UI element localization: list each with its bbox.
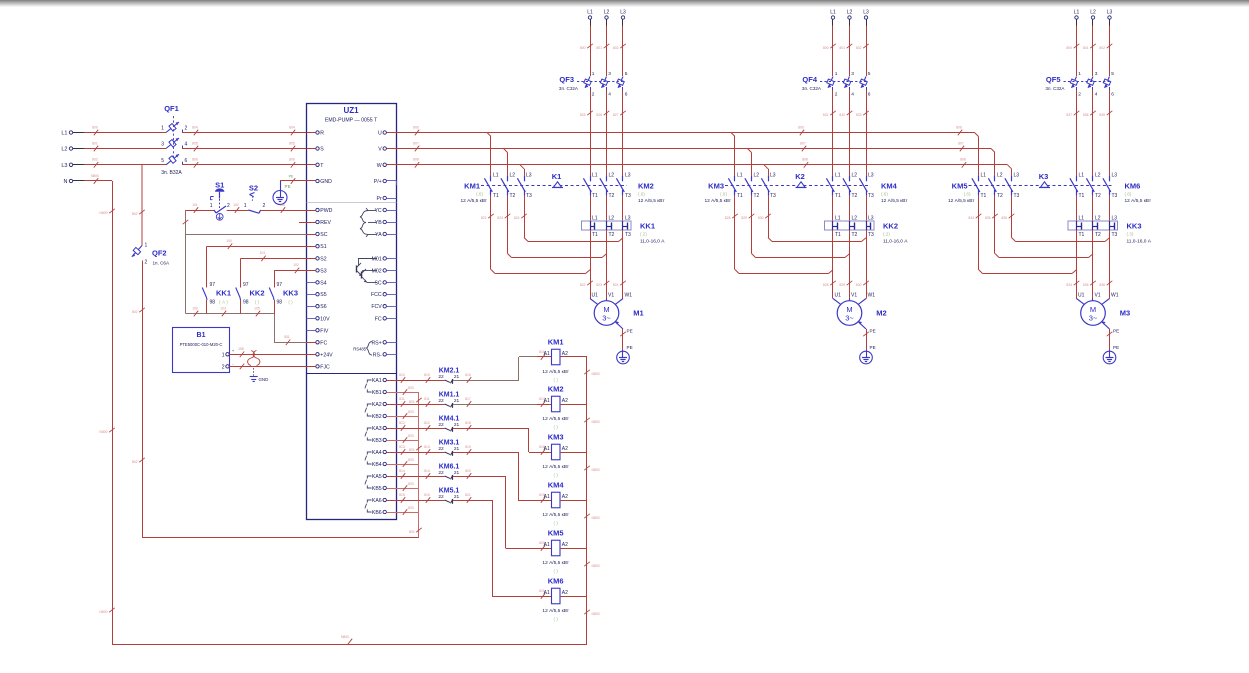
wire L3 tap to QF2 [132,165,145,246]
svg-text:T1: T1 [493,193,499,199]
UZ1 pin GND [307,179,333,185]
svg-text:KB4: KB4 [372,462,382,468]
svg-text:802: 802 [92,158,98,162]
wire L1 down to QF5 [1066,26,1079,77]
svg-text:5: 5 [161,158,164,164]
svg-text:L3: L3 [625,172,631,178]
svg-text:L1: L1 [592,216,598,222]
wire KM6 coil A2 to N bus [560,596,587,598]
wire L3 down to QF5 [1099,26,1112,77]
svg-text:A1: A1 [544,351,550,357]
auxiliary NC contact KM3.1 (21-22) [438,440,459,456]
svg-text:814: 814 [424,469,430,473]
terminal L3 (mains input) [61,163,84,169]
wire KM5 T1 to motor junction [968,196,1076,274]
UZ1 pin V [378,147,396,153]
svg-text:822: 822 [481,216,487,220]
svg-text:21: 21 [454,446,460,452]
svg-text:803: 803 [408,434,414,438]
svg-text:KB1: KB1 [372,390,382,396]
svg-text:L2: L2 [1095,216,1101,222]
junction V bus drop branch 1 [504,149,508,153]
svg-text:819: 819 [465,445,471,449]
wire KM2 T1 to KK1 [590,196,592,221]
svg-text:S3: S3 [320,268,326,274]
UZ1 relay contact KA3/KB3 [365,426,397,444]
svg-text:836: 836 [1001,216,1007,220]
svg-text:6: 6 [185,158,188,164]
wire KM3 pole 1 feed [734,137,736,176]
svg-text:823: 823 [497,216,503,220]
svg-text:829: 829 [839,283,845,287]
cable screen twist symbol [248,351,260,366]
UZ1 pin W [377,163,397,169]
svg-text:PTE5000C-010-M20-C: PTE5000C-010-M20-C [180,342,223,347]
svg-text:U1: U1 [592,293,599,299]
svg-text:K3: K3 [1039,172,1049,181]
svg-text:12 А/5,5 кВт: 12 А/5,5 кВт [542,512,569,518]
svg-text:KM3: KM3 [708,182,724,191]
svg-text:12 А/5,5 кВт: 12 А/5,5 кВт [638,198,665,204]
terminal L1 branch 2 [830,10,836,26]
ground PE motor M2 [860,350,873,364]
terminal L3 branch 1 [620,10,626,26]
svg-text:22: 22 [438,422,444,428]
UZ1 pin FC [375,316,397,322]
svg-text:21: 21 [454,422,460,428]
wire L2 QF1 to UZ1 S [182,141,316,151]
svg-text:L1: L1 [737,172,743,178]
svg-text:801: 801 [92,141,98,145]
svg-text:501: 501 [284,335,290,339]
svg-text:KB2: KB2 [372,414,382,420]
svg-text:L3: L3 [1112,172,1118,178]
svg-text:11,0-16,0 А: 11,0-16,0 А [883,239,908,245]
contactor coil KM4 [537,481,570,526]
wire KM4 T1 to KK2 [832,196,834,221]
wire KM1 pole 1 feed [490,137,492,176]
UZ1 pin S1 [307,244,327,250]
svg-text:S6: S6 [320,304,326,310]
UZ1 pin 10V [307,316,331,322]
svg-text:KB5: KB5 [372,486,382,492]
svg-text:L3: L3 [1112,216,1118,222]
svg-text:FJC: FJC [320,364,330,370]
wire QF4 pole 1 to KM4 [823,90,836,176]
auxiliary NC contact KM4.1 (21-22) [438,416,459,432]
svg-text:812: 812 [424,421,430,425]
wire B1 pin1 to +24V [229,347,306,357]
svg-text:N800: N800 [99,211,107,215]
svg-text:T2: T2 [754,193,760,199]
svg-text:PE: PE [627,329,633,334]
ground PE motor M1 [617,350,630,364]
wire S2 row to KK2 contact [241,251,307,287]
svg-text:S1: S1 [320,244,326,250]
svg-text:KM6: KM6 [1125,182,1141,191]
svg-text:12 А/5,5 кВт: 12 А/5,5 кВт [1125,198,1152,204]
wire KK3 T1 to motor M3 [1066,230,1079,299]
svg-text:PE: PE [870,345,876,350]
junction W bus drop branch 2 [764,165,768,169]
svg-text:KM5: KM5 [548,529,564,538]
svg-text:W: W [377,163,382,169]
wire motor M3 PE [1102,321,1119,350]
wire KK1 T3 to motor M1 [613,230,626,299]
thermal relay NC contact KK3 (97-98) [269,282,298,314]
UZ1 multi-output symbol YC/YB/YA [360,208,377,237]
svg-text:T3: T3 [1112,193,1118,199]
motor M2 (M 3~) [833,293,887,326]
svg-text:KM5.1: KM5.1 [439,488,460,495]
svg-text:L1: L1 [1079,216,1085,222]
svg-text:3~: 3~ [1089,314,1098,323]
svg-text:PWD: PWD [320,208,332,214]
svg-text:A1: A1 [544,446,550,452]
svg-text:805: 805 [289,141,295,145]
svg-text:818: 818 [465,421,471,425]
svg-text:800: 800 [823,46,829,50]
svg-text:11,0-16,0 А: 11,0-16,0 А [1127,239,1152,245]
UZ1 pin YA [375,232,396,238]
wire KK1 T2 to motor M1 [596,230,609,299]
svg-text:KM1: KM1 [464,182,480,191]
wire L1 feed to QF1 [84,125,166,135]
thermal overload relay KK2 (heaters) [825,216,909,245]
svg-text:KM6: KM6 [548,577,564,586]
svg-text:4: 4 [185,142,188,148]
svg-text:KM2: KM2 [638,182,654,191]
svg-text:807: 807 [413,141,419,145]
svg-text:800: 800 [92,125,98,129]
wire KM3 pole 3 feed [768,169,770,176]
svg-text:SC: SC [374,280,381,286]
wire B1 pin2 to FJC [229,364,306,370]
circuit breaker QF5 (3-pole, 3п. С32А) [1045,71,1114,98]
svg-text:801: 801 [1083,46,1089,50]
svg-text:T1: T1 [835,193,841,199]
svg-text:QF2: QF2 [152,249,167,258]
terminal L2 (mains input) [61,147,84,153]
svg-text:KM3.1: KM3.1 [439,440,460,447]
svg-text:5: 5 [625,71,628,77]
circuit breaker QF2 (1-pole, 1п. С6А) [132,243,170,266]
svg-text:98: 98 [210,300,216,306]
svg-text:( ): ( ) [554,617,559,622]
UZ1 pin SC [374,280,396,286]
wire KM2 T3 to KK1 [622,196,624,221]
wire KA3 to KM4.1 contact [397,421,445,431]
wire QF5 pole 2 to KM6 [1083,90,1096,176]
wire FWD loop to SC vertical [183,210,189,314]
svg-text:12 А/5,5 кВт: 12 А/5,5 кВт [460,198,487,204]
svg-text:3п. С32А: 3п. С32А [1045,86,1065,91]
svg-text:PE: PE [285,184,291,189]
svg-text:834: 834 [968,216,974,220]
svg-text:T3: T3 [1112,232,1118,238]
svg-text:N800: N800 [592,420,600,424]
svg-text:PE: PE [289,175,294,179]
svg-text:T1: T1 [1079,193,1085,199]
junction U bus drop branch 1 [487,133,491,137]
svg-text:L3: L3 [1014,172,1020,178]
svg-text:813: 813 [424,445,430,449]
svg-text:104: 104 [279,203,285,207]
svg-text:S5: S5 [320,292,326,298]
wire KK2 T3 to motor M2 [856,230,869,299]
svg-text:6: 6 [1111,92,1114,98]
wire KK3 T2 to motor M3 [1083,230,1096,299]
wire QF3 pole 1 to KM2 [580,90,593,176]
UZ1 pin FCV [371,304,396,310]
UZ1 pin S4 [307,280,327,286]
svg-text:A2: A2 [562,590,568,596]
svg-text:P/+: P/+ [374,179,382,185]
wire L3 QF1 to UZ1 T [182,158,316,168]
junction V bus drop branch 2 [748,149,752,153]
svg-text:FC: FC [320,340,327,346]
svg-text:L2: L2 [510,172,516,178]
svg-text:21: 21 [454,494,460,500]
svg-text:T3: T3 [625,193,631,199]
terminal L3 branch 3 [1107,10,1113,26]
svg-text:( А ): ( А ) [219,300,228,305]
svg-text:3п. В32А: 3п. В32А [161,170,182,176]
UZ1 pin M01 [372,256,397,262]
UZ1 pin Pr [377,196,397,202]
svg-text:3~: 3~ [845,314,854,323]
svg-text:803: 803 [408,386,414,390]
wire KM3 pole 2 feed [751,153,753,176]
wire KM2 T2 to KK1 [606,196,608,221]
UZ1 pin S6 [307,304,327,310]
svg-text:T3: T3 [770,193,776,199]
label UZ1 [343,106,359,115]
svg-text:12 А/5,5 кВт: 12 А/5,5 кВт [542,369,569,375]
contactor KM1 main contacts [460,172,532,204]
svg-text:L1: L1 [592,172,598,178]
svg-text:824: 824 [613,283,619,287]
svg-text:802: 802 [132,310,138,314]
motor M3 (M 3~) [1077,293,1131,326]
svg-text:3: 3 [851,71,854,77]
VFD U1 box outline (UZ1 EMD-PUMP) [307,104,397,520]
ground PE (near UZ1) [273,181,291,205]
contactor KM4 main contacts [826,172,908,204]
UZ1 pin T [307,163,325,169]
svg-text:S2: S2 [249,184,258,193]
svg-text:98: 98 [277,300,283,306]
svg-text:KK3: KK3 [283,289,298,298]
contactor KM6 main contacts [1070,172,1152,204]
auxiliary NC contact KM5.1 (21-22) [438,488,459,504]
svg-text:835: 835 [1083,283,1089,287]
svg-text:808: 808 [802,158,808,162]
svg-text:811: 811 [424,397,430,401]
svg-text:A1: A1 [544,494,550,500]
svg-text:5: 5 [868,71,871,77]
svg-text:A1: A1 [544,542,550,548]
svg-text:L1: L1 [830,10,836,16]
circuit breaker QF3 (3-pole, 3п. С32А) [559,71,628,98]
UZ1 pin YC [374,208,396,214]
svg-text:814: 814 [399,469,405,473]
svg-text:811: 811 [399,397,405,401]
svg-text:12 А/5,5 кВт: 12 А/5,5 кВт [542,560,569,566]
UZ1 pin R [307,131,325,137]
svg-text:T2: T2 [852,193,858,199]
wire motor M2 PE [858,321,875,350]
wire KK3 T3 to motor M3 [1099,230,1112,299]
wire KB5 to KB bus [397,482,420,491]
svg-text:N800: N800 [592,468,600,472]
svg-text:21: 21 [454,470,460,476]
wire L2 down to QF3 [596,26,609,77]
auxiliary NC contact KM2.1 (21-22) [438,368,459,384]
svg-text:21: 21 [454,374,460,380]
svg-text:KA2: KA2 [372,402,382,408]
svg-text:829: 829 [741,216,747,220]
UZ1 pin FC [307,340,328,346]
wire KA5 to KM6.1 contact [397,469,445,479]
svg-text:M2: M2 [876,309,886,318]
svg-text:A1: A1 [544,590,550,596]
svg-text:KM2.1: KM2.1 [439,368,460,375]
svg-text:KA3: KA3 [372,426,382,432]
svg-text:838: 838 [1083,113,1089,117]
svg-text:L2: L2 [609,172,615,178]
svg-text:813: 813 [399,445,405,449]
svg-text:12 А/5,5 кВт: 12 А/5,5 кВт [542,464,569,470]
svg-text:L2: L2 [852,216,858,222]
svg-text:103: 103 [220,306,226,310]
UZ1 pin FIV [307,328,329,334]
UZ1 RS485 port symbol [353,342,372,356]
svg-text:803: 803 [408,482,414,486]
svg-text:803: 803 [409,448,415,452]
wire L3 down to QF4 [856,26,869,77]
svg-text:RS-: RS- [373,352,382,358]
wire KM3 T1 to motor junction [725,196,833,274]
svg-text:QF5: QF5 [1046,75,1061,84]
svg-text:V1: V1 [1095,293,1101,299]
svg-text:803: 803 [408,458,414,462]
svg-text:830: 830 [758,216,764,220]
svg-text:100: 100 [226,239,232,243]
svg-text:N800: N800 [592,516,600,520]
svg-text:802: 802 [132,460,138,464]
UZ1 relay contact KA2/KB2 [365,402,397,420]
thermal overload relay KK3 (heaters) [1068,216,1152,245]
svg-text:FCC: FCC [371,292,382,298]
svg-text:M02: M02 [372,268,382,274]
terminal L3 branch 2 [863,10,869,26]
svg-text:UZ1: UZ1 [343,106,359,115]
svg-text:(.6): (.6) [881,192,888,197]
svg-text:834: 834 [1066,283,1072,287]
svg-text:A2: A2 [562,542,568,548]
wire KM1 T1 to motor junction [481,196,590,274]
svg-text:3п. С32А: 3п. С32А [802,86,822,91]
svg-text:L3: L3 [61,163,67,169]
svg-text:820: 820 [465,469,471,473]
wire KM6.1 contact to KM5 coil A1 [453,469,537,549]
wire FWD loop [186,203,307,213]
svg-text:KK2: KK2 [249,289,264,298]
svg-text:1: 1 [145,243,148,249]
svg-text:KM5: KM5 [952,182,968,191]
svg-text:22: 22 [438,446,444,452]
svg-text:N800: N800 [592,612,600,616]
UZ1 pin PWD [307,208,333,214]
svg-text:( ): ( ) [554,569,559,574]
svg-text:2: 2 [222,364,225,370]
auxiliary NC contact KM6.1 (21-22) [438,464,459,480]
svg-text:4: 4 [851,92,854,98]
UZ1 pin REV [299,220,332,226]
svg-text:823: 823 [596,283,602,287]
wire KB common bus [409,392,422,538]
wire L2 down to QF5 [1083,26,1096,77]
wire KM6 T2 to KK3 [1092,196,1094,221]
wire QF2 to coil L-rail [132,261,145,538]
svg-text:M01: M01 [372,256,382,262]
svg-text:T3: T3 [526,193,532,199]
mechanical interlock K2 (dashed link) [725,172,870,188]
svg-text:S2: S2 [320,256,326,262]
wire L2 feed to QF1 [84,141,166,151]
svg-text:97: 97 [277,282,283,288]
svg-text:101: 101 [192,203,198,207]
svg-text:808: 808 [413,158,419,162]
svg-text:12 А/5,5 кВт: 12 А/5,5 кВт [948,198,975,204]
ground PE motor M3 [1103,350,1116,364]
svg-text:L1: L1 [1074,10,1080,16]
wire L3 feed to QF1 [84,158,166,168]
wire KM5 pole 3 feed [1011,169,1013,176]
wire KM3 T3 to motor junction [758,196,866,242]
svg-text:L2: L2 [754,172,760,178]
svg-text:RS485: RS485 [353,347,366,352]
svg-text:L2: L2 [1095,172,1101,178]
wire N bus down left side [99,181,114,645]
svg-text:KM2: KM2 [548,385,564,394]
svg-text:3: 3 [1095,71,1098,77]
svg-text:806: 806 [798,125,804,129]
svg-text:4: 4 [608,92,611,98]
label EMD-PUMP — 0055 T [325,118,378,124]
svg-text:2: 2 [1078,92,1081,98]
svg-text:L2: L2 [61,147,67,153]
svg-text:800: 800 [580,46,586,50]
svg-text:Pr: Pr [377,196,382,202]
UZ1 relay contact KA5/KB5 [365,474,397,492]
terminal L1 (mains input) [61,131,84,137]
wire GND to PE ground [280,175,307,184]
svg-text:806: 806 [192,158,198,162]
contactor coil KM2 [537,385,570,430]
svg-text:2: 2 [592,92,595,98]
sensor B1 (PTE5000C) [173,328,235,373]
svg-text:(.6): (.6) [720,192,727,197]
svg-text:L1: L1 [587,10,593,16]
contactor coil KM5 [537,529,570,574]
wire KM1 pole 2 feed [507,153,509,176]
wire KM1.1 contact to KM2 coil A1 [453,397,537,407]
wire motor M1 PE [615,321,632,350]
wire KK 98 common bus [186,306,275,316]
wire QF5 pole 1 to KM6 [1066,90,1079,176]
